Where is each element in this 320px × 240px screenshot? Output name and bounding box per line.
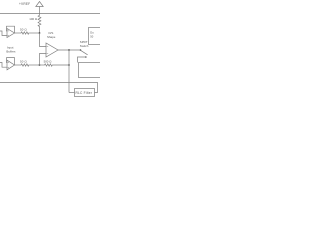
svg-text:Shape: Shape <box>47 35 56 39</box>
wire 50ohm lower to node B <box>29 64 39 66</box>
op-amp U3 gain stage <box>46 43 58 57</box>
svg-text:Switch: Switch <box>80 44 89 48</box>
resistor R 50 ohm upper <box>21 32 30 34</box>
node junction B <box>39 64 41 66</box>
op-amp U1 input buffer top <box>7 29 15 38</box>
op-amp U2 input buffer bottom <box>7 60 15 70</box>
wire U1 output <box>15 32 21 34</box>
svg-text:Du: Du <box>90 31 94 35</box>
wire U2 output <box>15 64 21 66</box>
node junction C <box>68 64 70 66</box>
node junction A <box>39 32 41 34</box>
wire 500ohm to node C <box>53 64 69 66</box>
box middle right (cropped) <box>79 63 103 78</box>
wire U1 feedback loop <box>7 26 15 33</box>
power symbol +VREF <box>36 2 43 7</box>
wire 50ohm to node <box>29 32 39 34</box>
wire U1 input from left edge <box>0 31 7 36</box>
wire filter input corner <box>69 92 75 94</box>
wire node B to 500ohm <box>40 64 45 66</box>
wire node B up to U3 - input <box>40 54 47 66</box>
wire top VREF rail <box>0 13 100 15</box>
resistor R 500 ohm feedback <box>44 64 53 66</box>
box upper right (cropped) <box>89 28 103 45</box>
wire U3 output to switch pole <box>58 49 81 51</box>
wire bottom return rail <box>0 83 98 93</box>
svg-text:100 Ω: 100 Ω <box>29 17 38 21</box>
svg-text:50 Ω: 50 Ω <box>20 59 27 63</box>
switch SPDT arm <box>81 50 88 55</box>
switch SPDT throw contact dot <box>85 56 87 58</box>
resistor R 50 ohm lower <box>21 64 30 66</box>
svg-text:50: 50 <box>90 35 93 39</box>
svg-text:Buffers: Buffers <box>6 49 16 53</box>
resistor R 100 ohm <box>38 14 41 34</box>
node VREF stub <box>39 7 41 14</box>
wire U2 input from left edge <box>0 63 7 68</box>
svg-text:RLC Filter: RLC Filter <box>76 91 93 95</box>
svg-text:50 Ω: 50 Ω <box>20 28 27 32</box>
node junction D on output <box>68 49 70 51</box>
wire throw to lower box <box>78 57 86 63</box>
svg-text:500 Ω: 500 Ω <box>44 59 53 63</box>
wire U2 feedback loop <box>7 58 15 65</box>
box RLC filter <box>75 89 95 97</box>
wire vertical feedback/filter tap <box>68 50 70 93</box>
svg-text:+VREF: +VREF <box>19 2 30 6</box>
switch SPDT pole dot <box>80 49 82 51</box>
wire node A down to U3 + input <box>40 33 47 47</box>
